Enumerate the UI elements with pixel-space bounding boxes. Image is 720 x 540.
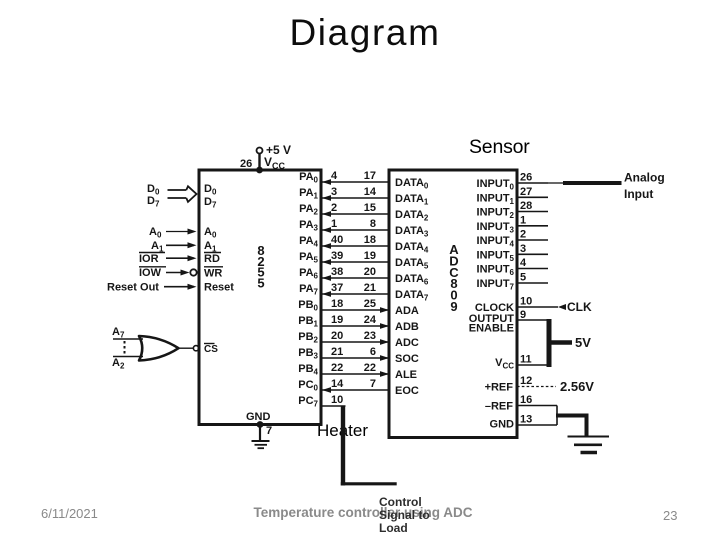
wire A0 to U1 [149, 226, 197, 240]
wire PB4 row (8255 pin 22 to ADC pin 22) [298, 362, 417, 381]
junction at U1 Vcc pin 26 [256, 167, 263, 174]
svg-text:23: 23 [364, 330, 376, 342]
svg-text:PB0: PB0 [298, 299, 318, 313]
wire PA1 row (8255 pin 3 to ADC pin 14) [299, 186, 429, 207]
svg-text:5: 5 [520, 272, 526, 284]
svg-text:DATA3: DATA3 [395, 225, 429, 239]
svg-text:Input: Input [624, 187, 653, 201]
U2 pin -REF (pin 16) [485, 394, 557, 413]
svg-text:ADC: ADC [395, 337, 419, 349]
svg-text:CLK: CLK [567, 300, 592, 314]
svg-text:PB4: PB4 [298, 363, 318, 377]
power +5V terminal [257, 148, 263, 154]
svg-text:12: 12 [520, 375, 532, 387]
svg-text:6: 6 [370, 346, 376, 358]
svg-text:5V: 5V [575, 335, 591, 350]
svg-text:INPUT0: INPUT0 [477, 178, 515, 192]
svg-text:38: 38 [331, 266, 343, 278]
svg-text:PA5: PA5 [299, 251, 318, 265]
slide title [5, 12, 720, 54]
svg-text:PA4: PA4 [299, 235, 318, 249]
svg-text:37: 37 [331, 282, 343, 294]
U1 pin labels A0 A1 RD WR Reset [204, 226, 234, 294]
ground symbol (8255) [252, 441, 270, 448]
svg-text:WR: WR [204, 268, 222, 280]
svg-text:DATA6: DATA6 [395, 273, 429, 287]
svg-text:Reset Out: Reset Out [107, 282, 159, 294]
svg-text:A2: A2 [112, 357, 125, 371]
svg-text:26: 26 [240, 158, 252, 170]
svg-text:14: 14 [364, 186, 377, 198]
wire IOR to U1 RD [139, 253, 197, 266]
svg-text:7: 7 [370, 378, 376, 390]
svg-text:INPUT7: INPUT7 [477, 278, 515, 292]
svg-text:PA7: PA7 [299, 283, 318, 297]
svg-text:A1: A1 [204, 240, 217, 254]
svg-text:INPUT6: INPUT6 [477, 264, 515, 278]
svg-text:20: 20 [331, 330, 343, 342]
svg-text:8255: 8255 [257, 243, 264, 290]
footer title [3, 505, 720, 520]
svg-text:PA0: PA0 [299, 171, 318, 185]
U2 pin INPUT5 (pin 3) [477, 243, 548, 263]
svg-text:INPUT2: INPUT2 [477, 207, 515, 221]
label Sensor [469, 136, 530, 159]
svg-text:D0: D0 [204, 183, 217, 197]
wire PA3 row (8255 pin 1 to ADC pin 8) [299, 218, 429, 239]
svg-text:+REF: +REF [485, 382, 514, 394]
gate U3 address decoder (OR shape) [139, 336, 179, 361]
U2 pin INPUT6 (pin 4) [477, 257, 548, 277]
wire gate input A2 [113, 356, 143, 358]
svg-text:DATA5: DATA5 [395, 257, 429, 271]
svg-text:8: 8 [370, 218, 376, 230]
svg-text:IOW: IOW [139, 267, 162, 279]
wire IOW to U1 WR (active-low bubble) [139, 267, 197, 279]
U2 pin INPUT0 (pin 26) [477, 172, 548, 192]
svg-text:CS: CS [204, 344, 218, 355]
wire data bus block arrow [168, 186, 197, 202]
svg-text:17: 17 [364, 170, 376, 182]
svg-text:PC0: PC0 [298, 379, 318, 393]
wire to ADC ground [556, 414, 587, 418]
svg-text:3: 3 [331, 186, 337, 198]
svg-text:PB2: PB2 [298, 331, 318, 345]
svg-text:11: 11 [520, 354, 532, 366]
svg-text:7: 7 [266, 425, 272, 437]
svg-text:ADA: ADA [395, 305, 419, 317]
svg-text:PA1: PA1 [299, 187, 318, 201]
svg-text:25: 25 [364, 298, 376, 310]
svg-text:14: 14 [331, 378, 344, 390]
svg-text:GND: GND [490, 419, 515, 431]
svg-text:PB1: PB1 [298, 315, 318, 329]
wire GND to ground [259, 425, 261, 442]
svg-text:INPUT4: INPUT4 [477, 235, 515, 249]
svg-text:26: 26 [520, 172, 532, 184]
wire Vcc [258, 154, 260, 171]
svg-text:19: 19 [331, 314, 343, 326]
U2 pin INPUT4 (pin 2) [477, 229, 548, 249]
U2 pin +REF (pin 12) [485, 375, 556, 394]
svg-text:Analog: Analog [624, 171, 665, 185]
svg-text:DATA2: DATA2 [395, 209, 429, 223]
svg-text:10: 10 [331, 394, 343, 406]
IC U2 ADC0809 body [389, 170, 517, 438]
dashed range mark between A7 and A2 [124, 341, 126, 355]
svg-text:INPUT1: INPUT1 [477, 192, 515, 206]
footer page number [663, 508, 677, 523]
svg-text:18: 18 [331, 298, 343, 310]
svg-text:1: 1 [520, 214, 526, 226]
svg-text:GND: GND [246, 411, 271, 423]
svg-text:VCC: VCC [264, 155, 286, 171]
svg-text:VCC: VCC [495, 357, 514, 371]
svg-text:A0: A0 [149, 226, 162, 240]
svg-text:PA3: PA3 [299, 219, 318, 233]
svg-text:2: 2 [520, 229, 526, 241]
wire PB2 row (8255 pin 20 to ADC pin 23) [298, 330, 419, 349]
svg-text:13: 13 [520, 414, 532, 426]
svg-text:40: 40 [331, 234, 343, 246]
svg-text:PB3: PB3 [298, 347, 318, 361]
footer date [41, 506, 98, 521]
svg-text:PA6: PA6 [299, 267, 318, 281]
svg-text:–REF: –REF [485, 401, 513, 413]
svg-text:16: 16 [520, 394, 532, 406]
wire PC7 row (8255 pin 10) [298, 394, 345, 409]
U2 pin INPUT1 (pin 27) [477, 186, 548, 206]
svg-text:2: 2 [331, 202, 337, 214]
svg-text:EOC: EOC [395, 385, 419, 397]
svg-text:A7: A7 [112, 326, 125, 340]
U1 pin label CS [204, 344, 218, 356]
wire PA5 row (8255 pin 39 to ADC pin 19) [299, 250, 429, 271]
svg-text:D7: D7 [147, 195, 160, 209]
svg-text:21: 21 [331, 346, 343, 358]
svg-text:PA2: PA2 [299, 203, 318, 217]
IC U1 8255 PPI body [199, 170, 321, 425]
wire PC7 to heater (thick L) [341, 406, 345, 486]
wire PA4 row (8255 pin 40 to ADC pin 18) [299, 234, 429, 255]
svg-text:22: 22 [331, 362, 343, 374]
svg-text:Reset: Reset [204, 282, 234, 294]
svg-text:PC7: PC7 [298, 395, 318, 409]
svg-text:D7: D7 [204, 196, 217, 210]
wire gate input A7 [113, 338, 143, 340]
U2 pin INPUT7 (pin 5) [477, 272, 548, 292]
svg-text:4: 4 [331, 170, 338, 182]
junction at U1 GND pin [257, 421, 264, 428]
U2 pin CLOCK (pin 10) [475, 296, 558, 315]
wire PB3 row (8255 pin 21 to ADC pin 6) [298, 346, 419, 365]
wire A1 to U1 [151, 240, 197, 254]
svg-text:IOR: IOR [139, 253, 159, 265]
svg-text:ADC809: ADC809 [449, 242, 459, 314]
U2 pin OUTPUT ENABLE (pin 9) [469, 309, 547, 335]
wire PA0 row (8255 pin 4 to ADC pin 17) [299, 170, 429, 191]
wire PA2 row (8255 pin 2 to ADC pin 15) [299, 202, 429, 223]
svg-text:RD: RD [204, 253, 220, 265]
svg-text:SOC: SOC [395, 353, 419, 365]
svg-text:ENABLE: ENABLE [469, 323, 514, 335]
svg-text:ALE: ALE [395, 369, 417, 381]
wire joining -REF and GND [556, 406, 558, 426]
svg-text:DATA1: DATA1 [395, 193, 429, 207]
wire PA6 row (8255 pin 38 to ADC pin 20) [299, 266, 429, 287]
svg-text:A0: A0 [204, 226, 217, 240]
wire Reset Out to U1 Reset [107, 282, 197, 294]
svg-text:9: 9 [520, 309, 526, 321]
svg-text:27: 27 [520, 186, 532, 198]
wire gate output [179, 347, 194, 349]
wire stub to 5V [551, 340, 572, 345]
svg-text:DATA4: DATA4 [395, 241, 429, 255]
wire PB1 row (8255 pin 19 to ADC pin 24) [298, 314, 419, 333]
U2 pin INPUT2 (pin 28) [477, 200, 548, 220]
active-low bubble at CS [193, 346, 198, 351]
U2 pin Vcc (pin 11) [495, 354, 547, 371]
U2 pin INPUT3 (pin 1) [477, 214, 548, 234]
svg-text:19: 19 [364, 250, 376, 262]
svg-text:DATA7: DATA7 [395, 289, 429, 303]
label Control Signal to Load [379, 496, 430, 536]
svg-text:2.56V: 2.56V [560, 379, 594, 394]
svg-text:22: 22 [364, 362, 376, 374]
svg-text:4: 4 [520, 257, 527, 269]
wire analog input to INPUT0 [548, 182, 563, 184]
U2 pin GND (pin 13) [490, 414, 557, 431]
svg-text:28: 28 [520, 200, 532, 212]
svg-text:ADB: ADB [395, 321, 419, 333]
wire PB0 row (8255 pin 18 to ADC pin 25) [298, 298, 419, 317]
node CLK arrow and label [558, 304, 566, 310]
svg-text:18: 18 [364, 234, 376, 246]
svg-text:INPUT5: INPUT5 [477, 249, 515, 263]
svg-text:A1: A1 [151, 240, 164, 254]
ground symbol (ADC) [568, 437, 610, 453]
svg-text:INPUT3: INPUT3 [477, 221, 515, 235]
svg-text:1: 1 [331, 218, 337, 230]
svg-text:3: 3 [520, 243, 526, 255]
svg-text:10: 10 [520, 296, 532, 308]
svg-text:24: 24 [364, 314, 377, 326]
svg-text:DATA0: DATA0 [395, 177, 429, 191]
label Heater [317, 421, 368, 441]
svg-text:39: 39 [331, 250, 343, 262]
wire PC0 row (8255 pin 14 to ADC pin 7) [298, 378, 419, 397]
wire 5V bracket joining pins 9 and 11 [547, 319, 552, 367]
svg-text:21: 21 [364, 282, 376, 294]
svg-text:15: 15 [364, 202, 376, 214]
svg-text:20: 20 [364, 266, 376, 278]
wire PA7 row (8255 pin 37 to ADC pin 21) [299, 282, 429, 303]
